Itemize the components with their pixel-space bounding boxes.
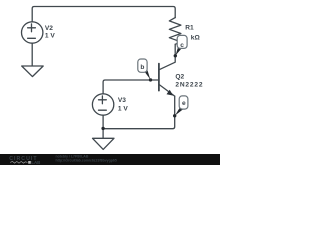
svg-text:1 V: 1 V (45, 33, 55, 40)
svg-text:V3: V3 (118, 97, 126, 104)
node e tail (175, 107, 183, 115)
wire emitter down and left (103, 96, 175, 129)
node b tail (144, 69, 151, 79)
wire V3 bottom to ground (102, 115, 104, 138)
node c tail (176, 47, 182, 56)
node b dot (149, 78, 152, 81)
svg-text:http://circuitlab.com/c6z23f8b: http://circuitlab.com/c6z23f8bvygp65 (56, 158, 117, 162)
wire R1 bottom to collector (159, 44, 175, 70)
svg-text:c: c (180, 42, 184, 49)
ground for V3 (93, 138, 115, 149)
resistor R1 (169, 18, 181, 45)
node e dot (173, 114, 176, 117)
logo box (28, 161, 31, 164)
svg-text:b: b (140, 64, 144, 71)
wire base from V3 (103, 80, 159, 94)
node e box (179, 96, 188, 109)
svg-text:LAB: LAB (31, 160, 40, 165)
transistor Q2 base bar (158, 64, 160, 91)
svg-text:1 V: 1 V (118, 105, 128, 112)
watermark bar (0, 154, 220, 165)
svg-text:R1: R1 (185, 25, 194, 32)
junction dot bottom wire (101, 127, 104, 130)
svg-text:2N2222: 2N2222 (175, 82, 203, 89)
wire V2 bottom to ground (31, 43, 33, 66)
node c box (177, 35, 187, 48)
wire top loop V2 to R1 (32, 7, 175, 22)
ground for V2 (22, 66, 44, 77)
svg-text:V2: V2 (45, 25, 53, 32)
transistor Q2 emitter arrow (167, 90, 174, 96)
transistor Q2 emitter (159, 84, 175, 96)
voltage source V3 (92, 94, 113, 115)
svg-text:Q2: Q2 (175, 74, 184, 81)
voltage source V2 (22, 22, 43, 43)
logo zigzag (10, 161, 27, 163)
node c dot (174, 54, 177, 57)
svg-text:e: e (182, 100, 186, 107)
node b box (138, 59, 147, 72)
svg-text:kΩ: kΩ (191, 35, 201, 42)
